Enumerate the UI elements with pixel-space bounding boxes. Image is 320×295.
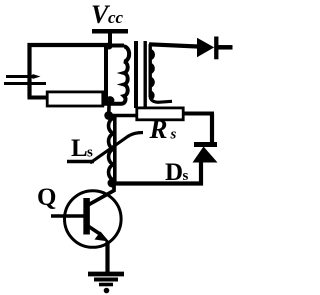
capacitor C1 top plate (arrow right) (6, 74, 41, 79)
Vcc stem wire (108, 31, 112, 47)
transistor Q circle (65, 191, 122, 248)
switch arm fixed contact (67, 160, 94, 163)
wire node A to node B (107, 100, 111, 116)
transistor Q base wire (51, 214, 84, 218)
wire bottom right rail (Ds to node C) (110, 181, 203, 185)
label Rs (149, 114, 177, 144)
node B junction dot (104, 111, 113, 120)
node C junction dot (Ls bottom / collector) (108, 179, 117, 188)
diode Ds triangle (193, 147, 218, 163)
inductor Ls winding (109, 116, 115, 183)
resistor Rs (horizontal box) (137, 108, 183, 120)
wire D1 cathode out (218, 45, 233, 50)
label Ds (165, 159, 189, 186)
wire emitter to ground (105, 241, 109, 273)
transformer T1 primary winding (104, 46, 129, 104)
switch arm diagonal over Ls (90, 133, 143, 164)
Vcc power bar (92, 29, 128, 34)
wire Ds anode down (199, 162, 203, 186)
resistor R1 (left, horizontal box) (47, 92, 103, 106)
label Ls (71, 135, 93, 162)
svg-text:s: s (170, 127, 177, 143)
diode Ds (pointing up) cathode bar (194, 142, 217, 147)
svg-text:s: s (87, 145, 93, 161)
wire right rail upper (210, 114, 214, 145)
label Vcc (91, 0, 124, 29)
transformer T1 core (134, 41, 138, 108)
transistor Q emitter arrow (95, 232, 110, 242)
svg-text:L: L (71, 135, 88, 162)
transformer T1 secondary winding (150, 44, 153, 99)
capacitor C1 bottom plate (arrow left) (4, 81, 46, 86)
wire secondary top to diode D1 (149, 44, 198, 46)
wire secondary bottom hook (150, 96, 172, 102)
ground symbol (88, 272, 124, 277)
wire left drop through capacitor (27, 77, 31, 98)
junction dot (Vcc / top rail / primary top) (106, 43, 113, 50)
svg-text:cc: cc (108, 8, 124, 27)
node A junction dot (primary bottom) (106, 96, 115, 105)
wire top-left L (top rail + left drop) (30, 45, 112, 77)
label Q (37, 184, 56, 211)
wire to resistor R1 (28, 96, 49, 100)
wire node B to Rs (109, 114, 138, 118)
transistor Q base bar (83, 198, 90, 235)
svg-text:Q: Q (37, 184, 56, 211)
wire Rs to right rail (184, 112, 214, 116)
svg-text:R: R (149, 114, 168, 144)
transistor Q emitter wire (88, 226, 100, 234)
diode D1 (top right, pointing right) (197, 38, 214, 57)
wire R1 to node A (103, 98, 113, 102)
transistor Q collector wire (89, 183, 114, 205)
